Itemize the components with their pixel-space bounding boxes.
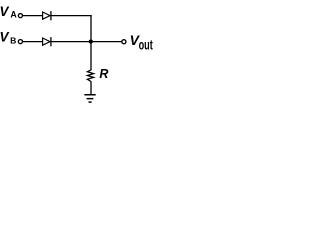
svg-text:A: A [10, 10, 17, 20]
terminal VA [18, 14, 22, 18]
svg-text:V: V [0, 30, 10, 45]
ground [84, 95, 95, 102]
wire [23, 15, 43, 17]
diode D2 [43, 37, 51, 46]
diode D1 [43, 11, 51, 20]
wire [23, 41, 43, 43]
wire [52, 41, 122, 43]
svg-text:R: R [99, 67, 108, 81]
wire [90, 15, 92, 70]
svg-text:out: out [139, 38, 153, 53]
resistor R [87, 70, 93, 82]
wire [90, 81, 92, 94]
junction [89, 40, 93, 44]
terminal Vout [122, 40, 126, 44]
wire [52, 15, 92, 17]
terminal VB [18, 40, 22, 44]
svg-text:V: V [0, 4, 10, 19]
svg-text:B: B [10, 36, 16, 46]
